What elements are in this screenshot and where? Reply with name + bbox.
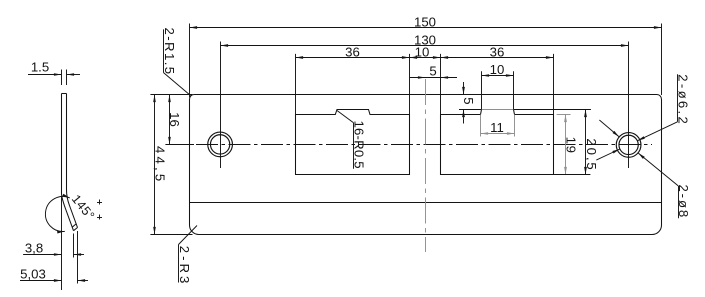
svg-text:2-R3: 2-R3: [177, 246, 192, 287]
svg-text:3,8: 3,8: [25, 240, 43, 255]
svg-text:150: 150: [414, 15, 436, 30]
svg-text:1.5: 1.5: [31, 60, 49, 75]
svg-text:19: 19: [563, 137, 578, 155]
svg-text:10: 10: [415, 44, 430, 59]
svg-text:5: 5: [461, 97, 476, 106]
svg-text:11: 11: [490, 120, 504, 135]
svg-text:16: 16: [167, 112, 182, 127]
svg-text:16-R0.5: 16-R0.5: [351, 120, 366, 168]
svg-text:2-ø6.2: 2-ø6.2: [675, 74, 690, 126]
svg-text:5: 5: [429, 63, 436, 78]
svg-text:5,03: 5,03: [20, 266, 46, 281]
svg-text:10: 10: [490, 62, 505, 77]
svg-text:44,5: 44,5: [152, 146, 167, 184]
svg-text:36: 36: [345, 44, 360, 59]
svg-text:20,5: 20,5: [584, 138, 599, 171]
svg-text:2-R1.5: 2-R1.5: [162, 28, 177, 76]
svg-text:36: 36: [490, 44, 505, 59]
svg-text:2-ø8: 2-ø8: [676, 184, 691, 219]
